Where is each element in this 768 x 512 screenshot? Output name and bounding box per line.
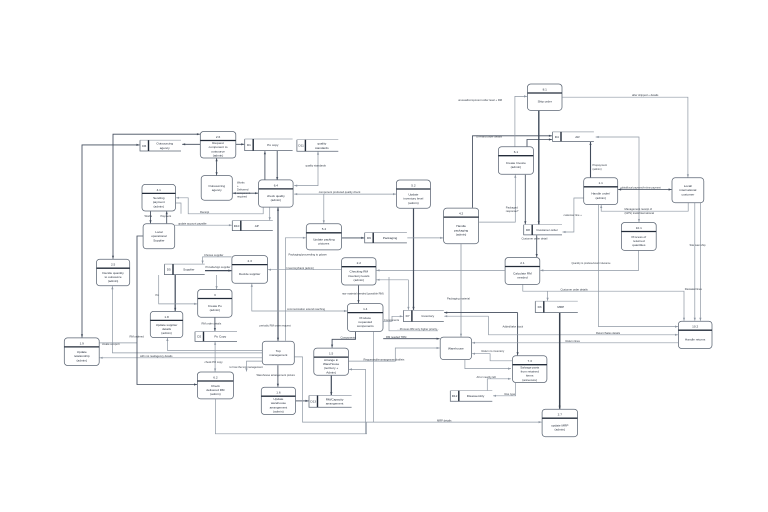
svg-text:2.6: 2.6 <box>216 135 221 139</box>
label to how top management <box>230 365 264 369</box>
svg-text:Components: Components <box>384 318 400 322</box>
label check po copy <box>205 360 224 364</box>
svg-text:8.1: 8.1 <box>543 87 548 91</box>
wire check-quality receipt to sending-payment <box>176 197 263 214</box>
svg-text:(admin): (admin) <box>77 358 88 362</box>
svg-text:5.2: 5.2 <box>411 183 416 187</box>
process 6.1 Create Invoice <box>498 147 533 175</box>
svg-text:needed: needed <box>517 276 528 280</box>
svg-text:2.2: 2.2 <box>357 261 362 265</box>
svg-text:Supplier: Supplier <box>183 268 194 272</box>
svg-text:periodic RM order request: periodic RM order request <box>260 323 291 327</box>
label restated lines <box>685 287 703 291</box>
svg-text:D6: D6 <box>142 144 146 148</box>
svg-text:(admin): (admin) <box>408 201 419 205</box>
entity Warehouse <box>440 337 471 360</box>
svg-text:(admin): (admin) <box>595 196 606 200</box>
svg-text:arrangement: arrangement <box>326 402 344 406</box>
label packaged response <box>506 206 519 214</box>
wire create-po to store D2 <box>214 318 216 332</box>
svg-text:management: management <box>269 353 287 357</box>
wire store D1 to check-quality <box>276 151 278 180</box>
label choose supplier <box>204 253 224 257</box>
label on-hand order details <box>476 135 503 139</box>
wire produce-requested to warehouse <box>383 338 439 340</box>
svg-text:Packaging material: Packaging material <box>447 297 470 301</box>
process 6.4 check quality <box>259 180 294 207</box>
label warehouse arrangement picture <box>257 373 296 377</box>
svg-text:6.2: 6.2 <box>213 375 218 379</box>
svg-text:Management receipt of: Management receipt of <box>625 207 653 211</box>
wire to handle-returns mid <box>489 316 679 336</box>
label periodic rm order request <box>260 323 291 327</box>
wire customer receipt to handle-order <box>600 203 688 211</box>
svg-text:4.1: 4.1 <box>157 188 162 192</box>
wire sending-payment side spur <box>176 203 181 214</box>
svg-text:Return/Sales details: Return/Sales details <box>596 331 621 335</box>
data store D9 Packaging <box>365 233 407 243</box>
data store D11 quality standards <box>297 140 338 152</box>
svg-text:RM needed TRM: RM needed TRM <box>386 335 407 339</box>
svg-text:Packaging/proceeding to gdown: Packaging/proceeding to gdown <box>289 252 328 256</box>
data store D3 MRP <box>535 301 578 312</box>
svg-text:D8: D8 <box>526 228 530 232</box>
wire produce-requested to arrange-warehouse <box>331 332 356 348</box>
label return to inventory <box>482 349 505 353</box>
wire decide-supplier to produce-requested <box>251 284 347 312</box>
wire create-invoice to store D8 <box>524 175 526 225</box>
label receipt <box>200 210 209 214</box>
data store D5 Supplier <box>165 264 205 275</box>
label create a report <box>102 342 120 346</box>
wire update-relationship to store D6 <box>81 144 140 338</box>
svg-text:1.4: 1.4 <box>363 307 368 311</box>
process 2.2 Checking RM inventory levels <box>342 258 376 285</box>
wire sending-payment works to supplier <box>149 211 151 223</box>
wire warehouse to salvage-parts <box>465 360 511 370</box>
svg-text:6.1: 6.1 <box>514 150 519 154</box>
label customer order detail <box>522 237 548 241</box>
wire check-quality to outsourcing agency <box>233 192 258 194</box>
data store D6 Outsourcing agency <box>140 140 181 151</box>
process 5.2 Update inventory level <box>396 180 430 208</box>
svg-text:create a report: create a report <box>102 342 120 346</box>
wire ship-order to store D8 <box>538 111 540 225</box>
svg-text:raw material needed (possible: raw material needed (possible RM) <box>342 291 384 295</box>
process 2.6 Request component to outsource <box>200 132 236 159</box>
svg-text:(admin): (admin) <box>271 198 282 202</box>
svg-text:D1: D1 <box>247 143 251 147</box>
svg-text:(admin): (admin) <box>213 154 224 158</box>
process 10.1 Process of returned quantities <box>621 223 656 251</box>
wire store D5 to update-supplier-details <box>174 275 176 311</box>
svg-text:5.4: 5.4 <box>322 227 327 231</box>
label after shipped details <box>632 93 659 97</box>
svg-text:10.1: 10.1 <box>636 226 642 230</box>
wire disassembly to salvage-parts <box>487 378 511 391</box>
wire check-quality to store D1 <box>264 151 266 180</box>
svg-text:D12: D12 <box>452 394 458 398</box>
svg-text:MRP: MRP <box>557 305 564 309</box>
data store D13 RM Capacity arrangement <box>309 396 352 408</box>
wire store D3 MRP to update-mrp <box>559 313 561 409</box>
wire customer to handle-returns b <box>699 203 701 321</box>
process 1.9 Update relationship <box>64 338 99 366</box>
wire top-management to update-relationship <box>100 357 262 359</box>
wire top-management to update-warehouse-arr <box>277 365 279 387</box>
svg-text:Provide/sign supplier: Provide/sign supplier <box>206 265 231 269</box>
data store D1 Po copy <box>245 139 293 151</box>
wire check-quality to top-management <box>277 208 279 341</box>
wire process-returned to calculate-rm <box>540 251 638 272</box>
wire store D8 to calculate-rm <box>536 235 538 257</box>
label return lines <box>566 339 581 343</box>
svg-text:Requested/re-arrangement/palle: Requested/re-arrangement/pallets <box>364 357 405 361</box>
svg-text:Po: Po <box>156 293 160 297</box>
svg-text:agency: agency <box>160 146 170 150</box>
wire top-management to update-packing-pictures <box>285 237 306 341</box>
wire request-component to store D6 <box>182 143 200 145</box>
wire create-invoice to ship-order <box>515 95 527 146</box>
wire supplier to check-delivered-rm <box>137 236 197 386</box>
data store D8 Customer order <box>524 225 562 235</box>
svg-text:7.3: 7.3 <box>528 359 533 363</box>
wire update-packing to store D9 <box>342 237 364 239</box>
svg-text:D5: D5 <box>167 268 171 272</box>
wire salvage-parts to store D12 <box>493 383 516 397</box>
svg-text:D3: D3 <box>538 305 542 309</box>
svg-text:(GPS) track/international: (GPS) track/international <box>625 211 655 215</box>
label mrp details <box>437 418 452 422</box>
svg-text:components: components <box>357 324 374 328</box>
wire store D5 to create-po top <box>216 275 218 289</box>
label rm ordered <box>130 335 145 339</box>
label customer line <box>564 213 583 217</box>
data store D7 Inventory <box>403 310 443 321</box>
wire top-management to update-mrp <box>295 357 542 423</box>
svg-text:D7: D7 <box>406 314 410 318</box>
label communication extend <box>287 307 325 311</box>
svg-text:required: required <box>237 195 247 199</box>
label with not real agency <box>140 354 173 358</box>
svg-text:after shipped + details: after shipped + details <box>632 93 659 97</box>
svg-text:1.8: 1.8 <box>164 315 169 319</box>
label rm needed trm <box>386 335 407 339</box>
label added take stock <box>503 325 524 329</box>
wire top-management to update-supplier-details <box>166 338 262 350</box>
wire top-management to decide-quantity <box>111 286 262 353</box>
svg-text:6.4: 6.4 <box>274 183 279 187</box>
svg-text:Quantity to produce/return tol: Quantity to produce/return tolerance <box>572 262 612 265</box>
label unusual component order level <box>458 98 503 102</box>
wire salvage to store D7 inventory <box>444 312 517 314</box>
wire decide-supplier choose to store D5 <box>202 257 232 264</box>
svg-text:(admin): (admin) <box>210 392 221 396</box>
process 4.2 Handle packaging <box>444 208 479 244</box>
svg-text:Admin): Admin) <box>326 371 336 375</box>
svg-text:1.6: 1.6 <box>276 391 281 395</box>
process 5.4 Update packing pictures <box>306 224 341 250</box>
label global local payment <box>621 187 662 190</box>
svg-text:update account payable: update account payable <box>178 221 207 225</box>
wire check-delivered-rm bottom loop <box>215 399 366 434</box>
process 2.5 Decide quantity to outsource <box>97 259 130 286</box>
wire supplier to store D10 AP <box>175 224 232 226</box>
svg-text:global/local payment/in-time p: global/local payment/in-time payment <box>621 187 662 190</box>
svg-text:pictures: pictures <box>318 242 329 246</box>
label return sales details <box>596 331 621 335</box>
svg-text:(admin): (admin) <box>354 278 365 282</box>
svg-text:response?: response? <box>506 209 519 213</box>
wire handle-packaging to create-invoice <box>479 175 516 222</box>
wire mrp-line to arrange-warehouse <box>349 368 366 434</box>
svg-text:Ship order: Ship order <box>538 100 552 104</box>
label all or nearby left <box>477 375 497 379</box>
wire update-warehouse-arr to store D13 <box>296 400 309 402</box>
svg-text:On-hand order details: On-hand order details <box>476 135 503 139</box>
svg-text:D10: D10 <box>234 224 240 228</box>
svg-text:D11: D11 <box>298 144 304 148</box>
svg-text:communication extend reaching: communication extend reaching <box>287 307 325 311</box>
svg-text:(admin): (admin) <box>161 331 172 335</box>
label works delivered component <box>237 180 251 198</box>
entity Local operational Supplier <box>143 224 175 249</box>
wire handle-packaging to store D4 AR <box>473 135 552 208</box>
entity Outsourcing agency <box>201 176 232 201</box>
svg-text:(admin): (admin) <box>456 233 467 237</box>
svg-text:Works: Works <box>145 214 153 218</box>
svg-text:Decide supplier: Decide supplier <box>239 272 260 276</box>
wire store D5 to decide-supplier <box>205 270 231 272</box>
wire salvage-parts top line <box>517 313 519 356</box>
label inventory bank admin <box>287 266 315 270</box>
svg-text:(admin): (admin) <box>108 279 119 283</box>
label management receipt <box>625 207 655 215</box>
wire quality-check branch to update-packing <box>323 194 325 223</box>
entity Top management <box>262 341 294 365</box>
label rm order details <box>202 322 222 326</box>
svg-text:component: component <box>237 191 251 195</box>
svg-text:D9: D9 <box>367 236 371 240</box>
wire handle-order prepayment to store D4 <box>589 142 591 177</box>
svg-text:Packaging: Packaging <box>383 236 398 240</box>
wire returns-line to store D7 <box>444 315 488 317</box>
svg-text:3: 3 <box>214 293 216 297</box>
svg-text:standards: standards <box>315 146 329 150</box>
process 3 Create Po <box>198 290 232 318</box>
svg-text:(admin): (admin) <box>511 165 522 169</box>
process 8.1 Ship order <box>528 84 563 110</box>
svg-text:1.5: 1.5 <box>329 352 334 356</box>
svg-text:1.9: 1.9 <box>80 341 85 345</box>
wire supplier payment to sending-payment <box>166 211 168 223</box>
wire handle-order loop to store D4 AR <box>596 136 640 222</box>
svg-text:AR: AR <box>575 135 580 139</box>
wire calculate-rm to checking-rm <box>377 269 505 271</box>
label packaging proceeding <box>289 252 328 256</box>
svg-text:Customer order: Customer order <box>536 228 558 232</box>
svg-text:Packaged: Packaged <box>506 206 518 210</box>
data store D4 AR <box>553 132 594 142</box>
label quantity produce return <box>572 262 612 265</box>
svg-text:Disassembly: Disassembly <box>467 394 485 398</box>
svg-text:D2: D2 <box>197 335 201 339</box>
process 7.3 Salvage parts from retained items <box>513 356 547 383</box>
svg-text:1.1: 1.1 <box>599 181 604 185</box>
svg-text:component produced quality che: component produced quality check <box>319 190 361 194</box>
wire update-inventory to store D7 <box>412 209 414 310</box>
svg-text:Supplier: Supplier <box>153 239 164 243</box>
wire handle-order to handle-returns <box>599 205 679 328</box>
svg-text:Customer order detail: Customer order detail <box>522 237 548 241</box>
svg-text:Choose supplier: Choose supplier <box>204 253 224 257</box>
wire store D2 to check-delivered-rm <box>214 342 216 372</box>
svg-text:Res type: Res type <box>505 392 516 396</box>
wire process-rm-priority line <box>389 277 438 331</box>
svg-text:unusual/component order level: unusual/component order level + RM <box>458 98 503 102</box>
svg-text:customer line +: customer line + <box>564 213 583 217</box>
label works <box>145 214 153 218</box>
svg-text:quality standards: quality standards <box>306 163 327 167</box>
wire produce-requested down line <box>373 332 375 422</box>
wire checking-rm to produce-requested <box>357 285 359 303</box>
process 1.1 Handle order <box>584 178 618 205</box>
svg-text:Works: Works <box>237 180 245 184</box>
svg-text:2.5: 2.5 <box>111 263 116 267</box>
label payment <box>161 214 172 218</box>
process 2.1 Calculate RM needed <box>505 258 540 285</box>
process 1.6 Update warehouse arrangement <box>261 387 295 414</box>
process 2.7 update MRP <box>542 409 577 437</box>
svg-text:Return to inventory: Return to inventory <box>482 349 505 353</box>
svg-text:Inventory: Inventory <box>421 314 434 318</box>
svg-text:4.2: 4.2 <box>459 212 464 216</box>
label quality standards <box>306 163 327 167</box>
svg-text:10.2: 10.2 <box>692 325 698 329</box>
svg-text:Components: Components <box>341 336 357 340</box>
wire checking-rm to decide-supplier <box>268 269 341 271</box>
svg-text:(admin): (admin) <box>273 410 284 414</box>
svg-text:RM order details: RM order details <box>202 322 222 326</box>
svg-text:customer: customer <box>682 193 695 197</box>
wire create-invoice to store D4 AR <box>527 138 552 146</box>
svg-text:AP: AP <box>255 224 259 228</box>
wire arrange-warehouse to warehouse <box>349 347 440 361</box>
svg-text:Restated lines: Restated lines <box>685 287 703 291</box>
svg-text:(admin): (admin) <box>210 308 221 312</box>
label process rm priority <box>398 327 440 331</box>
entity Local international customer <box>672 178 704 203</box>
svg-text:Receipt: Receipt <box>200 210 209 214</box>
svg-text:Return lines: Return lines <box>566 339 581 343</box>
wire check-quality to update-inventory <box>294 193 396 195</box>
svg-text:agency: agency <box>212 188 222 192</box>
process 6.2 Check delivered RM <box>197 372 233 399</box>
svg-text:check PO copy: check PO copy <box>205 360 224 364</box>
svg-text:to how the top management: to how the top management <box>230 365 264 369</box>
process 2.3 Decide supplier <box>232 256 268 284</box>
label provide sign supplier <box>206 265 231 269</box>
wire store D9 to handle-packaging <box>407 237 443 239</box>
wire update-relationship create-report <box>100 342 137 344</box>
svg-text:All or nearby left: All or nearby left <box>477 375 497 379</box>
svg-text:Prepayment: Prepayment <box>593 163 608 167</box>
wire arrange-warehouse to store D13 <box>330 376 332 395</box>
wire store D5 po to create-po <box>159 275 198 305</box>
wire top-management to check-delivered-rm <box>245 361 262 371</box>
wire calculate-rm details to handle-returns <box>523 285 685 321</box>
process 1.8 Update supplier details <box>150 311 183 337</box>
svg-text:2.3: 2.3 <box>248 259 253 263</box>
svg-text:(annexure): (annexure) <box>522 378 537 382</box>
process 1.4 Produce requested components <box>348 304 384 332</box>
svg-text:Warehouse: Warehouse <box>448 346 464 350</box>
label raw material needed <box>342 291 384 295</box>
svg-text:quantities: quantities <box>632 243 646 247</box>
wire check-quality to store D10 AP <box>269 208 271 221</box>
svg-text:Po Copy: Po Copy <box>214 335 226 339</box>
label customer order details <box>561 287 589 291</box>
svg-text:with not real/agency details: with not real/agency details <box>140 354 173 358</box>
wire handle-order to store D8 <box>563 198 584 233</box>
wire handle-returns to warehouse <box>472 342 678 344</box>
wire produce-requested to store D7 <box>383 315 403 321</box>
svg-text:Handle returns: Handle returns <box>685 337 706 341</box>
wire customer to handle-returns a <box>694 203 696 321</box>
svg-text:Added/take stock: Added/take stock <box>503 325 524 329</box>
svg-text:Po copy: Po copy <box>267 143 279 147</box>
label requested rearrangement <box>364 357 405 361</box>
label site wan ship <box>690 243 706 247</box>
data store D10 AP <box>232 221 272 231</box>
svg-text:RM ordered: RM ordered <box>130 335 145 339</box>
svg-text:Site wan ship: Site wan ship <box>690 243 706 247</box>
svg-text:Customer order details: Customer order details <box>561 287 589 291</box>
wire request-component to store D1 <box>236 143 244 145</box>
label component produced quality check <box>319 190 361 194</box>
wire salvage to warehouse return <box>472 353 512 361</box>
label po <box>156 293 160 297</box>
label prepayment admin <box>593 163 608 171</box>
data store D12 Disassembly <box>450 391 492 402</box>
svg-text:(admin): (admin) <box>593 167 602 171</box>
wire request-component to outsourcing agency <box>216 158 218 175</box>
svg-text:Payment: Payment <box>161 214 172 218</box>
wire branch to store D3 MRP <box>547 291 549 301</box>
svg-text:Delivered: Delivered <box>237 188 249 192</box>
svg-text:D13: D13 <box>310 400 316 404</box>
svg-text:2.7: 2.7 <box>558 413 563 417</box>
wire customer to handle-order <box>618 188 672 190</box>
svg-text:(admin): (admin) <box>154 204 165 208</box>
wire ship-order to customer <box>562 97 689 177</box>
svg-text:MRP details: MRP details <box>437 418 452 422</box>
process 10.2 Handle returns <box>678 321 712 348</box>
svg-text:2.1: 2.1 <box>520 261 525 265</box>
svg-text:D4: D4 <box>555 135 559 139</box>
svg-text:Warehouse arrangement picture: Warehouse arrangement picture <box>257 373 296 377</box>
wire handle-packaging to warehouse <box>460 244 462 337</box>
label components upper <box>384 318 400 322</box>
wire decide-quantity to request-component <box>112 133 200 259</box>
process 1.5 Arrange in WareHouse <box>314 348 349 375</box>
wire branch to store D7 inventory <box>407 280 409 310</box>
svg-text:(admin): (admin) <box>555 428 566 432</box>
wire inventory-line to checking-rm <box>377 279 409 281</box>
label components lower <box>341 336 357 340</box>
svg-text:...Process RM only higher prio: ...Process RM only higher priority... <box>398 327 440 331</box>
label res type <box>505 392 516 396</box>
